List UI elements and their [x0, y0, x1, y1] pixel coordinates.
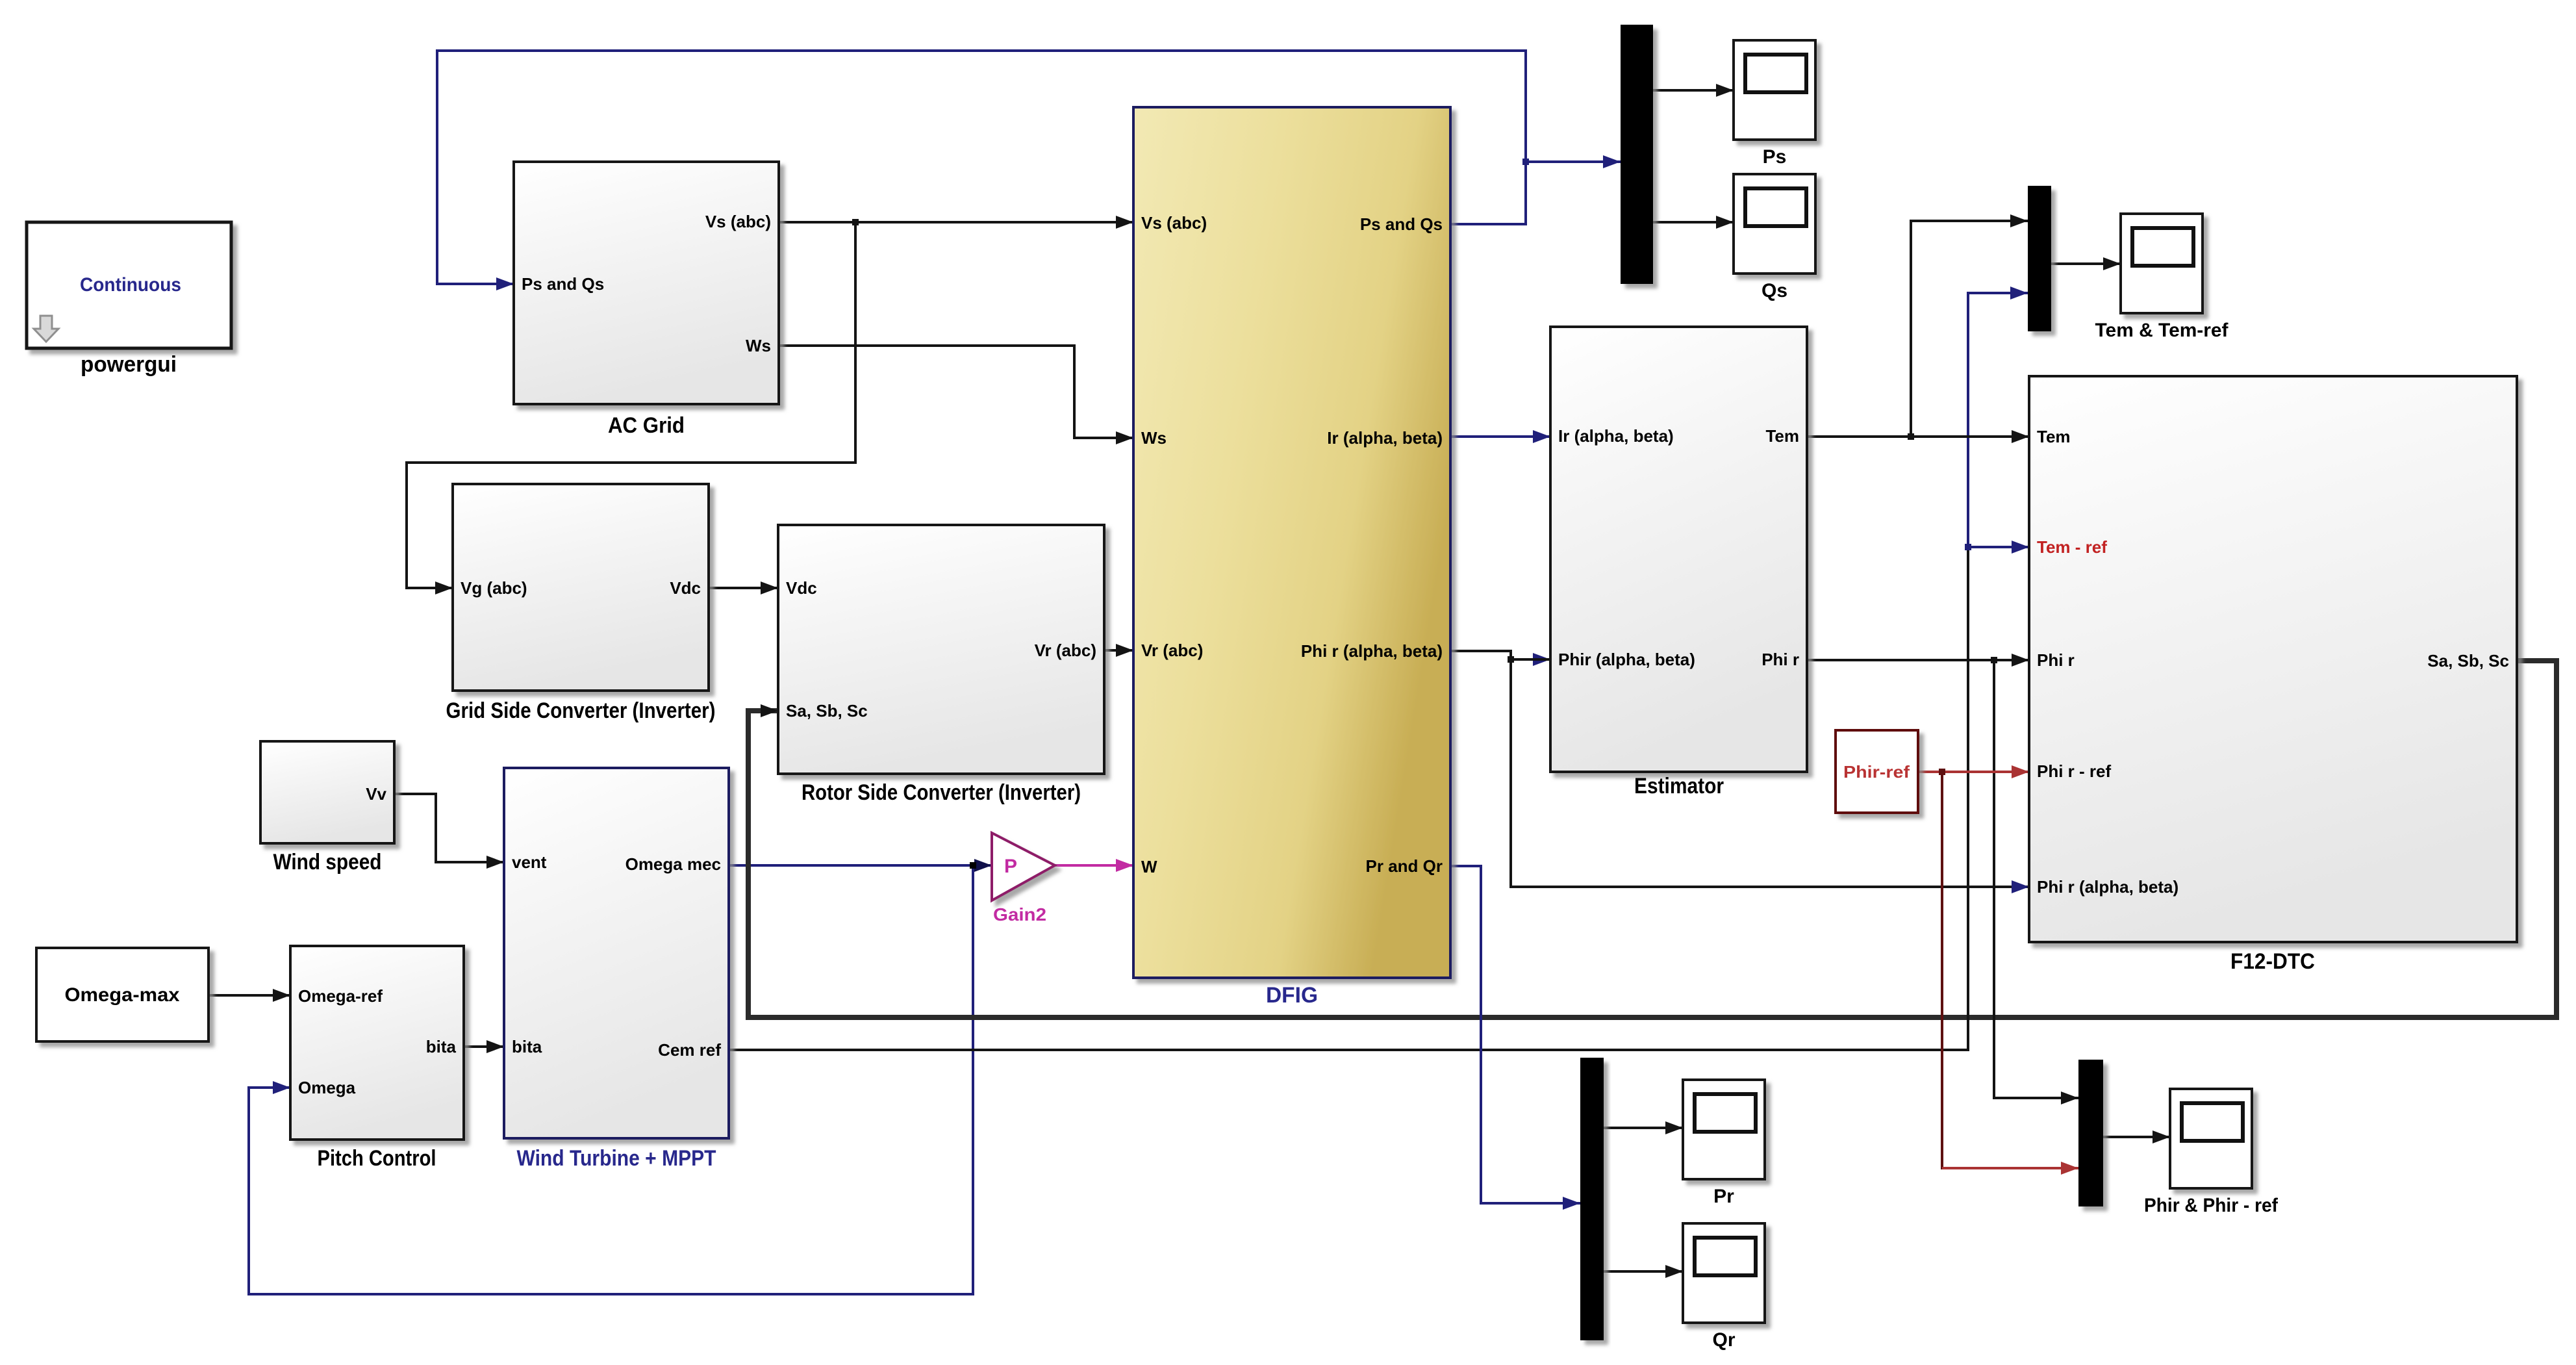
- svg-text:Ps: Ps: [1763, 146, 1787, 168]
- svg-text:Vdc: Vdc: [786, 578, 817, 598]
- svg-text:bita: bita: [512, 1037, 542, 1056]
- svg-text:Vr (abc): Vr (abc): [1141, 641, 1203, 660]
- svg-text:Phir (alpha, beta): Phir (alpha, beta): [1558, 650, 1695, 669]
- svg-text:DFIG: DFIG: [1266, 983, 1318, 1008]
- svg-text:W: W: [1141, 857, 1157, 876]
- svg-text:Vr (abc): Vr (abc): [1035, 641, 1096, 660]
- svg-text:Tem: Tem: [2037, 427, 2071, 446]
- svg-text:Phir-ref: Phir-ref: [1843, 762, 1910, 782]
- svg-text:Phi r (alpha, beta): Phi r (alpha, beta): [1301, 641, 1443, 661]
- svg-text:Pr: Pr: [1713, 1186, 1734, 1207]
- svg-text:Sa, Sb, Sc: Sa, Sb, Sc: [786, 701, 868, 721]
- svg-text:P: P: [1004, 856, 1017, 877]
- svg-text:Ir (alpha, beta): Ir (alpha, beta): [1327, 428, 1443, 448]
- svg-text:Omega-ref: Omega-ref: [298, 986, 383, 1006]
- svg-text:Tem - ref: Tem - ref: [2037, 537, 2107, 557]
- svg-text:Phir & Phir - ref: Phir & Phir - ref: [2144, 1195, 2279, 1216]
- svg-text:AC Grid: AC Grid: [608, 413, 685, 438]
- svg-text:bita: bita: [426, 1037, 457, 1056]
- svg-text:Grid Side Converter (Inverter): Grid Side Converter (Inverter): [446, 698, 716, 723]
- svg-text:Vg (abc): Vg (abc): [461, 578, 527, 598]
- svg-text:vent: vent: [512, 852, 547, 872]
- svg-text:Qs: Qs: [1762, 280, 1787, 301]
- svg-text:Ws: Ws: [746, 336, 771, 355]
- svg-text:Ps and Qs: Ps and Qs: [522, 274, 604, 294]
- svg-text:Pitch Control: Pitch Control: [318, 1146, 436, 1171]
- svg-text:Continuous: Continuous: [80, 274, 181, 296]
- svg-text:Tem & Tem-ref: Tem & Tem-ref: [2095, 320, 2229, 341]
- svg-text:Omega-max: Omega-max: [65, 984, 180, 1006]
- svg-text:Gain2: Gain2: [993, 904, 1046, 925]
- svg-text:Sa, Sb, Sc: Sa, Sb, Sc: [2427, 651, 2509, 670]
- svg-text:Vs (abc): Vs (abc): [1141, 213, 1207, 233]
- svg-text:Phi r (alpha, beta): Phi r (alpha, beta): [2037, 877, 2178, 897]
- svg-text:Qr: Qr: [1712, 1329, 1735, 1351]
- svg-text:Vs (abc): Vs (abc): [705, 212, 771, 231]
- svg-text:Tem: Tem: [1765, 426, 1799, 446]
- svg-text:Vv: Vv: [366, 784, 386, 804]
- svg-text:Phi r: Phi r: [2037, 650, 2075, 670]
- svg-text:Phi r - ref: Phi r - ref: [2037, 761, 2111, 781]
- svg-text:Pr and Qr: Pr and Qr: [1366, 856, 1443, 876]
- svg-text:Ws: Ws: [1141, 428, 1167, 448]
- svg-text:Ir (alpha, beta): Ir (alpha, beta): [1558, 426, 1674, 446]
- svg-text:Omega mec: Omega mec: [625, 854, 721, 874]
- svg-text:Omega: Omega: [298, 1078, 356, 1097]
- svg-text:Phi r: Phi r: [1762, 650, 1799, 669]
- svg-text:F12-DTC: F12-DTC: [2230, 949, 2315, 974]
- svg-text:Rotor Side Converter (Inverter: Rotor Side Converter (Inverter): [802, 780, 1081, 805]
- svg-text:Vdc: Vdc: [670, 578, 701, 598]
- svg-text:powergui: powergui: [81, 352, 177, 377]
- svg-text:Wind Turbine + MPPT: Wind Turbine + MPPT: [517, 1146, 716, 1171]
- svg-text:Wind speed: Wind speed: [273, 850, 382, 874]
- svg-text:Cem ref: Cem ref: [658, 1040, 721, 1060]
- svg-text:Ps and Qs: Ps and Qs: [1360, 214, 1443, 234]
- svg-text:Estimator: Estimator: [1634, 774, 1724, 798]
